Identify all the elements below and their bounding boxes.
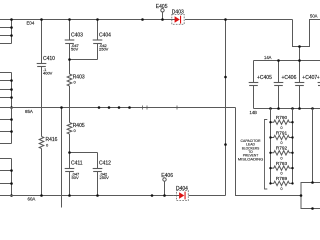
wire resistor bank right rail xyxy=(292,109,294,184)
wire 50A tap to 14A xyxy=(299,47,301,61)
svg-text:E406: E406 xyxy=(161,173,173,179)
diode D403 dashed box xyxy=(172,14,184,24)
svg-text:14A: 14A xyxy=(264,55,272,60)
wire top bus right of D403 xyxy=(185,19,293,21)
connector pins group 4 xyxy=(0,158,12,160)
node dots R789 xyxy=(269,182,271,184)
svg-text:0: 0 xyxy=(280,155,283,160)
resistor R790 xyxy=(271,120,293,124)
capacitor C412 symbol xyxy=(93,168,103,170)
node dots R792 xyxy=(269,152,271,154)
resistor R416 xyxy=(39,137,44,149)
node dots R791 xyxy=(269,136,271,138)
node dot R405 C411 junction xyxy=(68,151,71,154)
capacitor C412 column xyxy=(97,153,99,169)
svg-text:85A: 85A xyxy=(25,109,33,114)
svg-text:14B: 14B xyxy=(250,110,258,115)
node dot box left bus xyxy=(300,194,303,197)
node dot C403 bottom junction xyxy=(68,58,71,61)
svg-text:R791: R791 xyxy=(276,130,288,135)
node dot 85A drop xyxy=(60,106,63,109)
wire 85A bus xyxy=(0,107,236,109)
node dot C404 top xyxy=(96,18,99,21)
node dot E406 xyxy=(163,194,166,197)
diode D404 lead left xyxy=(174,195,179,197)
capacitor C411 bottom lead xyxy=(69,172,71,196)
wire 85A drop xyxy=(61,108,63,208)
capacitor C410 column xyxy=(41,20,43,64)
wire R403 to R405 xyxy=(69,86,71,123)
node dot box top xyxy=(311,181,314,184)
node dot return top xyxy=(224,18,227,21)
connector pins group 2 xyxy=(0,72,12,74)
resistor R403 xyxy=(67,74,72,86)
node dot box bottom xyxy=(311,207,314,210)
capacitor C406 symbol xyxy=(274,82,284,84)
test point E406 xyxy=(163,178,166,181)
capacitor C406 column xyxy=(278,61,280,83)
component box bottom right xyxy=(301,183,320,209)
resistor R789 xyxy=(271,181,293,185)
node dot C411 bottom xyxy=(68,194,71,197)
wire resistor bank left rail xyxy=(270,109,272,184)
node dots R790 xyxy=(269,121,271,123)
svg-text:+C406: +C406 xyxy=(282,75,297,81)
svg-text:MISLOADING: MISLOADING xyxy=(238,156,264,161)
svg-text:0: 0 xyxy=(280,140,283,145)
node dots group 4 xyxy=(10,169,13,172)
wire 60A bottom bus left xyxy=(0,195,174,197)
svg-text:0: 0 xyxy=(280,171,283,176)
wire right return vertical xyxy=(225,20,227,196)
capacitor C411 symbol xyxy=(65,168,75,170)
wire 14B bus xyxy=(254,108,320,110)
svg-text:C412: C412 xyxy=(99,161,111,167)
diode D403 red symbol xyxy=(175,16,180,23)
wire 14B drop to box xyxy=(312,109,314,183)
resistor R791 xyxy=(271,135,293,139)
node dots group 2 xyxy=(10,79,13,82)
svg-text:R789: R789 xyxy=(276,176,288,181)
capacitor C404 column xyxy=(97,20,99,41)
node dot C406 14A xyxy=(277,59,280,62)
wire R405 to C411 xyxy=(69,134,71,168)
svg-text:250V: 250V xyxy=(100,175,110,180)
wire R405 bottom to C412 xyxy=(70,152,98,154)
svg-text:E405: E405 xyxy=(156,4,168,10)
svg-text:+: + xyxy=(317,75,320,81)
svg-text:E04: E04 xyxy=(27,21,35,26)
svg-text:R790: R790 xyxy=(276,115,288,120)
svg-text:0: 0 xyxy=(280,186,283,191)
capacitor C405 column xyxy=(253,61,255,83)
node dot 50A tap xyxy=(298,45,301,48)
node dot C412 bottom xyxy=(96,194,99,197)
wire bottom bus D404 to corner xyxy=(189,195,226,197)
resistor R792 xyxy=(271,151,293,155)
node dot C410 top xyxy=(40,18,43,21)
capacitor C405 symbol xyxy=(249,82,259,84)
svg-text:R792: R792 xyxy=(276,146,288,151)
resistor R405 xyxy=(67,123,72,135)
svg-text:+C407: +C407 xyxy=(302,75,317,81)
diode D403 lead left xyxy=(172,19,176,21)
svg-text:R793: R793 xyxy=(276,161,288,166)
node dots on 85A bus xyxy=(98,106,101,109)
svg-text:+C405: +C405 xyxy=(257,75,272,81)
node dot return y77 xyxy=(224,76,227,79)
diode D404 dashed box xyxy=(177,191,189,201)
svg-text:D404: D404 xyxy=(176,186,188,192)
svg-text:250V: 250V xyxy=(99,47,109,52)
svg-text:50V: 50V xyxy=(71,47,78,52)
callout bracket xyxy=(265,120,268,190)
wire C403 C404 bottoms xyxy=(70,59,98,61)
node dot C407 14A xyxy=(298,59,301,62)
capacitor C407 symbol xyxy=(295,82,305,84)
svg-text:D403: D403 xyxy=(172,10,184,16)
pin ticks on 85A bus xyxy=(142,106,144,110)
svg-text:0: 0 xyxy=(280,125,283,130)
node dot top bus x142 xyxy=(141,18,144,21)
svg-text:0: 0 xyxy=(46,143,49,148)
node dots group 1 xyxy=(10,18,13,21)
diode D404 red symbol xyxy=(179,192,184,199)
svg-text:C411: C411 xyxy=(71,161,83,167)
node dot E405 xyxy=(161,18,164,21)
node dot bottom bus x152 xyxy=(151,194,154,197)
svg-text:60A: 60A xyxy=(28,197,36,202)
capacitor C407 column xyxy=(299,61,301,83)
node dot C403 top xyxy=(68,18,71,21)
node dots R793 xyxy=(269,167,271,169)
svg-text:C403: C403 xyxy=(71,33,83,39)
wire 50A U notch xyxy=(293,20,320,47)
node dot return y144 xyxy=(224,143,227,146)
svg-text:400V: 400V xyxy=(43,71,53,76)
svg-text:C404: C404 xyxy=(99,33,111,39)
wire 14A bus xyxy=(254,60,320,62)
capacitor C403 symbol xyxy=(65,39,75,41)
wire top 50A bus left segment xyxy=(0,19,172,21)
svg-text:50A: 50A xyxy=(310,13,318,18)
test point E405 xyxy=(161,9,164,12)
capacitor C410 symbol xyxy=(37,63,47,65)
svg-text:C410: C410 xyxy=(43,56,55,62)
connector pins group 3 xyxy=(0,119,12,121)
capacitor C408 partial at edge xyxy=(318,82,320,84)
node dots group 3 xyxy=(10,118,13,121)
node dot R416 bottom xyxy=(40,194,43,197)
resistor R793 xyxy=(271,166,293,170)
capacitor C403 column xyxy=(69,20,71,41)
node dots 14B bus xyxy=(269,107,272,110)
wire 85A corner down to bottom right bus xyxy=(236,108,302,196)
connector pins group 1 xyxy=(0,27,12,29)
capacitor C404 symbol xyxy=(93,39,103,41)
svg-text:50V: 50V xyxy=(72,175,79,180)
